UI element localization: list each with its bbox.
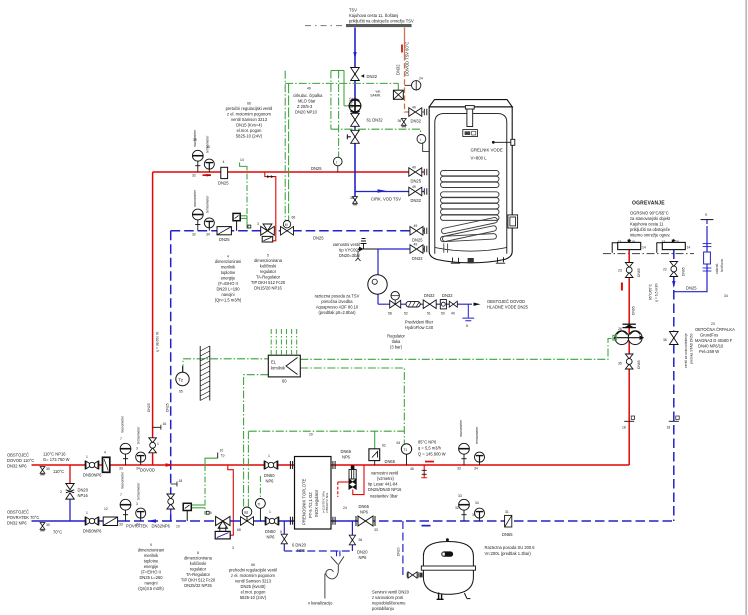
- svg-text:66: 66: [292, 216, 296, 220]
- svg-text:t=85/60°C 5Pa: t=85/60°C 5Pa: [325, 492, 329, 513]
- svg-text:Servisni ventil DN20: Servisni ventil DN20: [372, 590, 410, 595]
- valve tank port red DN25: [409, 168, 422, 177]
- svg-text:35: 35: [618, 362, 622, 366]
- svg-text:10: 10: [220, 449, 224, 453]
- wire blue return dashed to right riser: [352, 520, 674, 522]
- wire red vent stub x=424: [423, 465, 425, 478]
- svg-text:9: 9: [705, 213, 707, 217]
- svg-text:OGRSNO 90°C/65°C: OGRSNO 90°C/65°C: [630, 211, 669, 216]
- svg-text:60: 60: [282, 379, 287, 384]
- wire red main supply y=465: [32, 464, 295, 466]
- svg-text:1: 1: [269, 510, 271, 514]
- svg-text:33: 33: [458, 494, 462, 498]
- arrow blue cirk flow: [378, 189, 387, 193]
- gauges lower supply right pair: [459, 443, 470, 465]
- svg-text:(3 bar): (3 bar): [390, 345, 403, 350]
- svg-text:za stanovanjski objekt: za stanovanjski objekt: [630, 216, 671, 221]
- boundary OGREVANJE dash-dot: [603, 253, 694, 255]
- wire green drop to Tt sensor: [259, 476, 261, 498]
- valve cold water DN32: [423, 300, 436, 309]
- siphon trap: [326, 569, 338, 578]
- svg-text:TSV: TSV: [349, 8, 357, 13]
- svg-text:DN32: DN32: [412, 256, 423, 261]
- wire red stub to tank y=172: [422, 171, 425, 173]
- svg-text:termometer: termometer: [206, 195, 210, 213]
- heat meter supply box 4: [103, 457, 110, 472]
- svg-text:3: 3: [136, 447, 138, 451]
- svg-text:34: 34: [472, 513, 476, 517]
- arrow blue TSV down: [353, 52, 356, 59]
- svg-text:36: 36: [398, 119, 402, 123]
- svg-text:navojni: navojni: [145, 581, 158, 586]
- expansion vessel bottom: [423, 542, 473, 595]
- svg-text:DN25: DN25: [313, 236, 324, 241]
- wire blue drain header dashed y=551: [284, 550, 352, 552]
- sensor t on red upper line: [334, 157, 343, 166]
- wire green second line to M valve: [247, 431, 249, 507]
- svg-text:OBSTOJEČ DOVOD: OBSTOJEČ DOVOD: [487, 299, 525, 304]
- wire red drop to mixing valve box x=233: [228, 465, 234, 535]
- svg-text:33: 33: [457, 467, 461, 471]
- svg-text:3: 3: [257, 222, 259, 226]
- svg-text:Aquapresso ADF 80.10: Aquapresso ADF 80.10: [316, 305, 359, 310]
- svg-text:DN20: DN20: [357, 550, 368, 555]
- svg-text:DN65: DN65: [632, 306, 636, 315]
- svg-text:NP6: NP6: [360, 510, 369, 515]
- svg-text:DN25: DN25: [219, 237, 230, 242]
- svg-text:dimenzionirani: dimenzionirani: [138, 548, 164, 553]
- wire green vertical supply to return: [204, 465, 206, 515]
- valve return DN65 after HX: [356, 516, 375, 526]
- svg-text:el.mot. pogon: el.mot. pogon: [237, 128, 263, 133]
- wire green controller to pump long line: [300, 339, 616, 360]
- svg-text:M: M: [244, 510, 248, 515]
- wire red branch to upper 3-way valve box: [265, 172, 276, 241]
- svg-text:HydroFlow C40: HydroFlow C40: [405, 325, 434, 330]
- arrow blue right flow: [422, 525, 431, 527]
- svg-text:pretoka STAD DN50: pretoka STAD DN50: [690, 333, 694, 364]
- svg-text:14: 14: [687, 246, 691, 250]
- svg-text:36: 36: [663, 338, 667, 342]
- sensor Tz outdoor: [176, 372, 189, 385]
- svg-text:q = 6,5 m3/h: q = 6,5 m3/h: [655, 283, 659, 302]
- air vent assembly x=707: [704, 252, 711, 264]
- mixing valve controller box: [215, 531, 230, 539]
- svg-text:DN25/DN40 NP16: DN25/DN40 NP16: [368, 487, 402, 492]
- svg-text:DN25: DN25: [166, 403, 170, 412]
- wire blue air vent top stub: [706, 220, 708, 224]
- svg-text:količinski: količinski: [260, 264, 276, 269]
- wire blue DN25 branch to air vent: [674, 226, 707, 292]
- svg-text:DN50: DN50: [265, 529, 276, 534]
- drain existing supply: [40, 467, 45, 475]
- svg-text:DN20: DN20: [397, 547, 401, 556]
- wire green drop to box 62: [374, 431, 376, 449]
- svg-text:Predvideni filter: Predvideni filter: [405, 320, 434, 325]
- svg-text:4: 4: [223, 160, 225, 164]
- svg-text:49: 49: [412, 166, 416, 170]
- svg-text:DN20 L=190: DN20 L=190: [216, 287, 240, 292]
- svg-text:TIP DKH 512 Fc20: TIP DKH 512 Fc20: [251, 280, 286, 285]
- svg-text:termometer: termometer: [137, 482, 141, 500]
- svg-text:OBSTOJEČ: OBSTOJEČ: [7, 510, 29, 515]
- svg-text:5825-10 (24V): 5825-10 (24V): [236, 134, 263, 139]
- svg-text:DN20 NP10: DN20 NP10: [295, 110, 318, 115]
- svg-text:(predtlak p0=2.8bar): (predtlak p0=2.8bar): [319, 310, 357, 315]
- svg-text:V=800 L: V=800 L: [471, 156, 488, 161]
- 3-way valve upper: [261, 224, 275, 235]
- svg-text:38: 38: [350, 196, 354, 200]
- svg-text:1: 1: [268, 454, 270, 458]
- valve supply before HX DN50: [264, 461, 278, 470]
- svg-text:DN15 (Kvs=4): DN15 (Kvs=4): [236, 123, 262, 128]
- svg-text:manometer: manometer: [459, 419, 463, 437]
- svg-text:NP6: NP6: [359, 555, 368, 560]
- wire blue drain drop right x=352.4: [351, 521, 353, 551]
- wire green sensor link red supply to TA and return: [240, 163, 247, 171]
- valve tank port orange DN32: [409, 108, 422, 117]
- svg-text:el.mot. pogon: el.mot. pogon: [241, 590, 267, 595]
- svg-text:58: 58: [388, 312, 392, 316]
- svg-text:lončkom: lončkom: [720, 259, 724, 272]
- svg-text:G= 173.750 W: G= 173.750 W: [43, 457, 70, 462]
- svg-text:(Qn)3.5 m3/h): (Qn)3.5 m3/h): [138, 586, 164, 591]
- svg-text:24: 24: [419, 77, 423, 81]
- sensor T1 on supply: [401, 444, 411, 454]
- svg-text:ventil za uravnoteženje: ventil za uravnoteženje: [684, 333, 688, 368]
- wire red riser left x=152.6: [152, 172, 154, 465]
- flange connection blue OGREVANJE: [657, 239, 686, 253]
- svg-text:34: 34: [474, 467, 478, 471]
- svg-text:32: 32: [192, 232, 196, 236]
- wire green Tp bracket on supply: [205, 458, 218, 465]
- svg-text:34: 34: [136, 467, 140, 471]
- wire blue TSV drop x=355: [354, 28, 356, 203]
- svg-text:MLO Star: MLO Star: [298, 99, 316, 104]
- svg-text:5825-10 (24V): 5825-10 (24V): [240, 595, 267, 600]
- boundary TSV thick bar: [346, 24, 412, 27]
- wire blue expansion vessel branch dashed x=402.9: [403, 521, 407, 575]
- gauges upper supply pair: [192, 150, 203, 172]
- svg-text:energije: energije: [221, 276, 236, 281]
- svg-text:49: 49: [414, 224, 418, 228]
- svg-text:DN65: DN65: [637, 268, 641, 277]
- gauges upper return pair: [192, 209, 203, 231]
- small valve cold water: [449, 301, 457, 307]
- wire blue cold water vertical below vessel: [377, 294, 379, 304]
- svg-text:ventil Samson 3213: ventil Samson 3213: [231, 117, 268, 122]
- svg-text:DN50: DN50: [264, 473, 275, 478]
- svg-text:DN65: DN65: [359, 504, 370, 509]
- wire blue stub to tank y=230.8: [423, 230, 425, 232]
- svg-text:33: 33: [374, 528, 378, 532]
- funnel to sewer: [337, 551, 340, 557]
- wire orange TSV supply x=404.5: [404, 28, 406, 56]
- svg-text:poslabšanju: poslabšanju: [372, 606, 394, 611]
- svg-text:prehodni regulacijski ventil: prehodni regulacijski ventil: [229, 568, 277, 573]
- svg-text:merilnik: merilnik: [221, 265, 236, 270]
- valve DN20 drain left: [281, 534, 287, 544]
- arrow blue riser mark: [672, 281, 675, 288]
- svg-text:DN32NP6: DN32NP6: [152, 524, 171, 529]
- wire blue circulation branch y=191.5: [355, 191, 409, 193]
- svg-text:INOX regulator: INOX regulator: [314, 489, 319, 517]
- valve right riser blue STAD: [670, 332, 679, 345]
- svg-text:110°C NP16: 110°C NP16: [43, 452, 66, 457]
- wire green controller output left down to M valve: [244, 375, 269, 508]
- valve tank port cirk DN32: [409, 187, 422, 196]
- valve right riser red top DN65: [625, 263, 633, 278]
- cold water earth tee: [462, 304, 474, 321]
- tick sensor 18 on blue riser: [171, 482, 177, 487]
- wire green top frame left vertical x=285.2: [284, 71, 286, 221]
- svg-text:DN32 NP6: DN32 NP6: [7, 521, 27, 526]
- vessel service valve: [408, 572, 417, 578]
- svg-text:49: 49: [307, 87, 311, 91]
- svg-text:termometer: termometer: [206, 135, 210, 153]
- svg-text:t: t: [336, 160, 337, 164]
- wall section hatched: [199, 346, 201, 401]
- wire red main supply right of heat exchanger: [331, 464, 629, 466]
- svg-text:varnostni ventil: varnostni ventil: [333, 242, 360, 247]
- svg-text:61 DN32: 61 DN32: [367, 118, 384, 123]
- svg-text:Tz: Tz: [178, 378, 184, 383]
- wire green Tz to controller y=358.8: [183, 359, 268, 372]
- svg-text:TA-Regulator: TA-Regulator: [186, 572, 211, 577]
- svg-text:34: 34: [206, 232, 210, 236]
- svg-text:ventil Samson 3213: ventil Samson 3213: [235, 579, 272, 584]
- svg-text:(vzmetni): (vzmetni): [377, 476, 394, 481]
- svg-text:110°C: 110°C: [53, 469, 64, 474]
- drain ticks red vent x=424: [422, 470, 427, 474]
- svg-text:NP6: NP6: [266, 479, 275, 484]
- svg-text:DN32: DN32: [442, 293, 453, 298]
- wire blue drain drop left x=284.3: [283, 521, 285, 551]
- svg-text:2: 2: [60, 490, 62, 494]
- gauges lower supply left pair: [120, 443, 131, 465]
- svg-text:1: 1: [157, 442, 159, 446]
- svg-text:34: 34: [475, 501, 479, 505]
- svg-text:24: 24: [343, 506, 347, 510]
- gauges lower return left pair: [120, 499, 131, 521]
- valve TSV blue with check: [351, 130, 360, 143]
- svg-text:10: 10: [176, 525, 180, 529]
- svg-text:SAMR.: SAMR.: [370, 94, 381, 98]
- svg-text:T1: T1: [403, 448, 407, 452]
- valve bypass double: [66, 484, 74, 500]
- wire green controller output to T1 sensor: [300, 368, 404, 444]
- svg-text:DOVOD: DOVOD: [140, 468, 155, 473]
- svg-text:(Qn=1.5 m3/h): (Qn=1.5 m3/h): [215, 298, 242, 303]
- svg-text:32: 32: [455, 506, 459, 510]
- svg-text:regulator: regulator: [190, 567, 207, 572]
- heat meter box return upper DN25: [217, 227, 231, 235]
- svg-text:HLADNE VODE DN25: HLADNE VODE DN25: [487, 305, 529, 310]
- pump TSV circulation: [349, 100, 361, 112]
- svg-text:66: 66: [247, 102, 251, 106]
- svg-text:t: t: [420, 138, 421, 142]
- svg-text:34: 34: [206, 174, 210, 178]
- svg-text:dimenzionirani: dimenzionirani: [215, 259, 241, 264]
- svg-text:49: 49: [414, 243, 418, 247]
- wire blue tank bottom line y=249: [378, 248, 411, 250]
- svg-text:8: 8: [466, 324, 468, 328]
- tank GRELNIK VODE body: [429, 107, 512, 263]
- wire green pump connection y=105.8: [344, 105, 349, 107]
- svg-text:(F=EIHO II: (F=EIHO II: [218, 281, 238, 286]
- svg-text:TIP DKH 512 Fc20: TIP DKH 512 Fc20: [181, 578, 216, 583]
- svg-text:3: 3: [136, 502, 138, 506]
- svg-text:tip Lesar 441-84: tip Lesar 441-84: [368, 482, 398, 487]
- svg-text:33: 33: [119, 467, 123, 471]
- valve existing supply DN50NP6: [85, 461, 99, 470]
- wire blue upper horizontal dashed y=230.8: [171, 230, 411, 232]
- wire blue main return y=521: [32, 520, 121, 522]
- valve existing return DN50NP6: [85, 517, 99, 526]
- tank roof: [429, 100, 512, 107]
- tank port flanges left: [424, 109, 427, 252]
- arrow red right flow: [425, 461, 434, 463]
- svg-text:v kanalizacijo: v kanalizacijo: [308, 601, 333, 606]
- svg-text:DN32: DN32: [396, 64, 401, 75]
- svg-text:manometer: manometer: [121, 471, 125, 489]
- svg-text:DN32: DN32: [349, 97, 354, 108]
- valve DN20 drain right: [349, 535, 355, 545]
- controller output comb: [271, 329, 297, 355]
- wire green top second vertical x=288.6: [288, 83, 290, 220]
- sensor tick red riser: [624, 420, 634, 422]
- svg-text:52: 52: [404, 312, 408, 316]
- svg-text:4: 4: [104, 451, 106, 455]
- svg-text:14: 14: [240, 158, 244, 162]
- svg-text:z varovalom proti: z varovalom proti: [372, 595, 403, 600]
- wire blue return right of heat exchanger solid: [331, 520, 352, 522]
- valve return before HX DN50: [265, 517, 279, 526]
- svg-text:nastavitev 3bar: nastavitev 3bar: [370, 494, 398, 499]
- gauges lower return right pair: [459, 499, 470, 521]
- svg-text:(F=EIHO II: (F=EIHO II: [141, 570, 161, 575]
- svg-text:20: 20: [309, 433, 313, 437]
- wire blue stub tank y=249: [423, 248, 424, 250]
- svg-text:33: 33: [119, 523, 123, 527]
- valve M motor upper: [281, 227, 294, 236]
- tank feet: [451, 258, 460, 264]
- valve M motor bottom: [241, 517, 254, 526]
- wire red right riser x=629: [628, 250, 630, 466]
- svg-text:GRELNIK VODE: GRELNIK VODE: [471, 148, 503, 153]
- wire blue bypass bottom x=70: [69, 498, 71, 521]
- tank inner vessel: [435, 114, 507, 254]
- solenoid box on orange: [393, 90, 403, 99]
- svg-text:priključiti na obstoječe omrež: priključiti na obstoječe omrežje TSV: [349, 19, 414, 24]
- svg-text:Raztezna posoda SU 200.6: Raztezna posoda SU 200.6: [485, 545, 536, 550]
- svg-text:z el. motornim pogonom: z el. motornim pogonom: [231, 573, 276, 578]
- svg-text:Regulator: Regulator: [387, 334, 405, 339]
- svg-text:30: 30: [46, 523, 50, 527]
- svg-text:DN65: DN65: [341, 449, 352, 454]
- svg-text:18: 18: [631, 240, 635, 244]
- svg-text:regulator: regulator: [260, 269, 277, 274]
- sensor tick blue riser: [669, 420, 679, 422]
- sensor Tt bottom: [256, 499, 266, 509]
- pressure reducing valve cold water: [390, 292, 401, 309]
- svg-text:TA-Regulator: TA-Regulator: [256, 275, 281, 280]
- wire green TA box pair lines: [191, 504, 205, 506]
- TA controller box lower: [183, 503, 191, 510]
- svg-text:85°C NP6: 85°C NP6: [418, 440, 437, 445]
- svg-text:DN65: DN65: [502, 532, 513, 537]
- svg-text:EL: EL: [271, 360, 277, 365]
- svg-text:DN65: DN65: [637, 360, 641, 369]
- svg-text:merilnik: merilnik: [144, 553, 159, 558]
- arrow orange down: [401, 45, 403, 53]
- 3-way upper controller box: [262, 236, 273, 242]
- box 62 on supply: [369, 449, 380, 461]
- wire orange stub to tank: [422, 111, 425, 113]
- svg-text:krmilnik: krmilnik: [271, 366, 286, 371]
- svg-text:18: 18: [667, 426, 671, 430]
- cold water arrow: [474, 303, 481, 306]
- svg-text:3: 3: [232, 546, 234, 550]
- tank label plate: [463, 130, 478, 137]
- svg-text:DN40 NP6/10: DN40 NP6/10: [698, 344, 724, 349]
- sensor t on green to tank: [417, 135, 426, 144]
- valve red riser x=152.6: [149, 438, 157, 453]
- svg-text:30: 30: [46, 467, 50, 471]
- svg-text:DN25: DN25: [218, 181, 229, 186]
- svg-text:6: 6: [210, 511, 212, 515]
- svg-text:DN32: DN32: [411, 119, 422, 124]
- svg-text:DN15/20 NP16: DN15/20 NP16: [254, 286, 282, 291]
- svg-text:OBSTOJEČ: OBSTOJEČ: [7, 453, 29, 458]
- svg-text:tlaka: tlaka: [392, 339, 401, 344]
- valve tank port DN25 dashed: [410, 227, 423, 236]
- check valve return 31: [505, 515, 512, 527]
- svg-text:DOVOD TSV 60°C: DOVOD TSV 60°C: [405, 42, 410, 76]
- svg-text:13: 13: [662, 240, 666, 244]
- svg-text:7: 7: [120, 493, 122, 497]
- svg-text:6 DN20: 6 DN20: [292, 543, 307, 548]
- svg-text:pretočni regulacijski ventil: pretočni regulacijski ventil: [226, 106, 273, 111]
- svg-text:toplotne: toplotne: [144, 559, 159, 564]
- thermometer on orange: [412, 81, 421, 90]
- svg-text:22: 22: [663, 268, 667, 272]
- svg-text:energije: energije: [144, 564, 159, 569]
- tank sensor pocket: [492, 141, 495, 144]
- svg-text:18: 18: [675, 240, 679, 244]
- svg-text:termometer: termometer: [137, 426, 141, 444]
- drain TSV bottom: [353, 197, 358, 205]
- svg-text:49: 49: [412, 185, 416, 189]
- svg-text:NP6: NP6: [342, 455, 351, 460]
- tank anode fitting: [467, 109, 473, 127]
- wire red upper horizontal y=172: [153, 171, 409, 173]
- svg-text:interno omrežje ogrev.: interno omrežje ogrev.: [630, 233, 671, 238]
- svg-text:51: 51: [427, 312, 431, 316]
- svg-text:Q = 145.900 W: Q = 145.900 W: [418, 452, 446, 457]
- svg-text:1: 1: [86, 455, 88, 459]
- check valve cold water DN32: [440, 300, 446, 309]
- svg-text:DN25 L=260: DN25 L=260: [139, 575, 163, 580]
- svg-text:62: 62: [382, 444, 386, 448]
- svg-text:DN25: DN25: [147, 403, 151, 412]
- svg-text:Z 20/5-3: Z 20/5-3: [297, 104, 313, 109]
- arrow red upper flow: [203, 174, 212, 176]
- svg-text:1: 1: [86, 511, 88, 515]
- twin pump right riser: [615, 331, 629, 345]
- svg-text:DN50NP6: DN50NP6: [83, 473, 102, 478]
- strainer cold water: [406, 301, 420, 307]
